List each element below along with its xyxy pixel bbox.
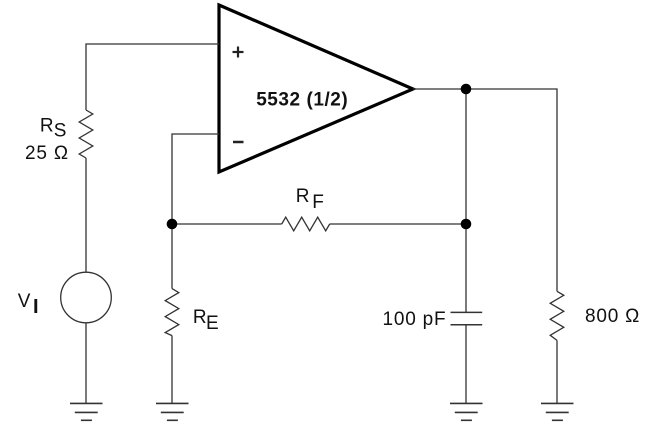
- wire RE to ground: [171, 336, 173, 404]
- wire 800 ohm to ground: [556, 340, 558, 403]
- voltage source VI: [61, 272, 112, 323]
- ground (VI): [70, 403, 103, 420]
- wire node A to RF: [172, 223, 282, 225]
- svg-text:E: E: [206, 313, 219, 334]
- svg-text:100 pF: 100 pF: [383, 309, 447, 330]
- resistor RE: [165, 289, 179, 336]
- svg-text:R: R: [193, 307, 207, 328]
- ground (RE): [156, 403, 189, 420]
- svg-text:R: R: [40, 115, 54, 136]
- ground (800 ohm): [541, 403, 574, 420]
- svg-text:I: I: [33, 296, 39, 318]
- wire VI to ground: [85, 323, 87, 404]
- wire RF to node B: [330, 223, 466, 225]
- op-amp plus input marker: [233, 47, 244, 58]
- svg-text:S: S: [54, 121, 67, 142]
- svg-text:F: F: [312, 192, 324, 213]
- wire op-amp output: [413, 89, 557, 291]
- svg-text:5532 (1/2): 5532 (1/2): [256, 89, 348, 110]
- resistor RS: [79, 110, 93, 158]
- wire node A to RE: [171, 224, 173, 289]
- capacitor C1 100 pF: [451, 312, 483, 324]
- resistor 800 ohm: [550, 291, 564, 340]
- wire inverting input: [172, 134, 219, 224]
- wire RS to VI source: [85, 158, 87, 272]
- resistor RF: [282, 217, 330, 231]
- wire noninverting input: [86, 44, 219, 110]
- op-amp U1 5532 (1/2): [219, 5, 413, 172]
- svg-text:V: V: [18, 291, 31, 312]
- output node junction dot: [461, 84, 472, 95]
- wire capacitor to ground: [465, 325, 467, 404]
- op-amp minus input marker: [233, 141, 244, 144]
- wire node B to capacitor: [465, 224, 467, 312]
- node B junction dot: [461, 219, 472, 230]
- ground (capacitor): [450, 403, 483, 420]
- svg-text:800 Ω: 800 Ω: [585, 306, 640, 327]
- wire output node down to node B: [465, 89, 467, 224]
- node A junction dot: [167, 219, 178, 230]
- svg-text:R: R: [296, 186, 310, 207]
- svg-text:25 Ω: 25 Ω: [25, 143, 69, 164]
